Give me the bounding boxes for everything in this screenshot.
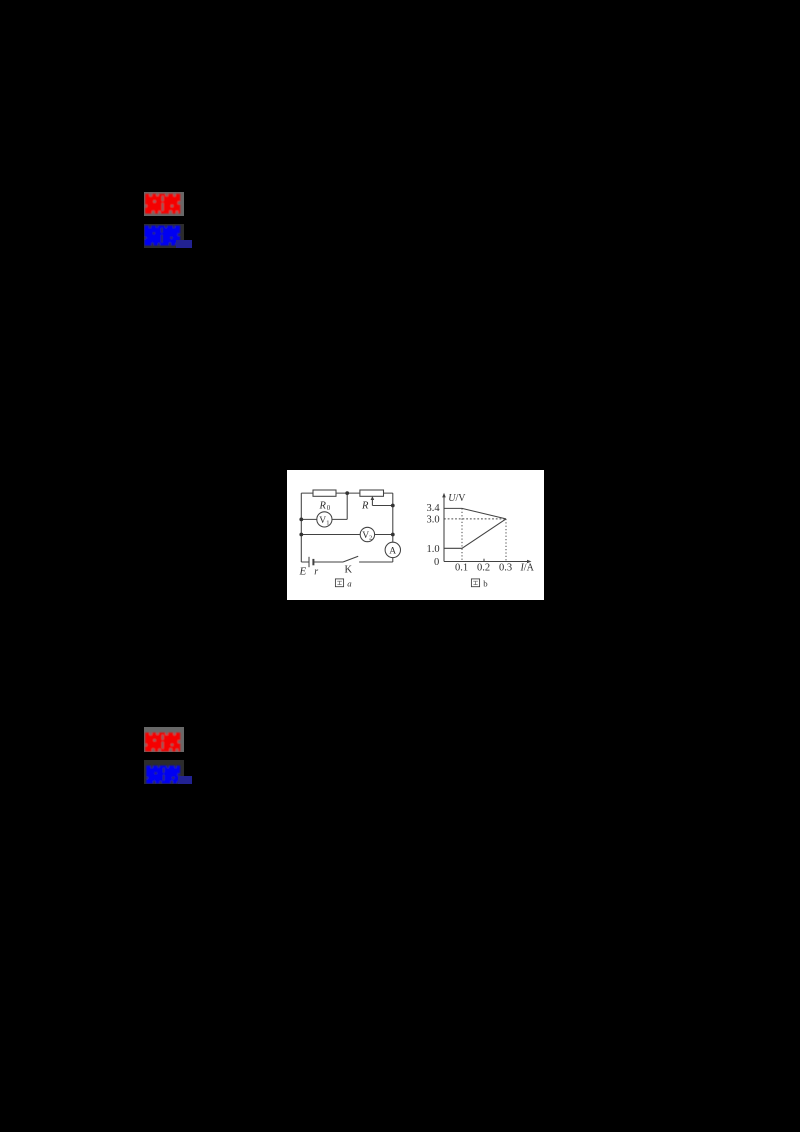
svg-text:0.1: 0.1 (455, 563, 468, 574)
svg-text:0.2: 0.2 (477, 563, 490, 574)
svg-text:b: b (483, 578, 488, 588)
svg-text:/V: /V (456, 493, 467, 504)
svg-text:0.3: 0.3 (499, 563, 512, 574)
svg-text:3.0: 3.0 (427, 515, 440, 526)
svg-text:A: A (389, 546, 396, 556)
svg-text:2: 2 (369, 535, 372, 542)
svg-text:E: E (299, 566, 307, 578)
svg-text:V: V (319, 516, 326, 526)
svg-text:R: R (361, 501, 369, 512)
svg-text:/A: /A (524, 562, 535, 573)
svg-text:1.0: 1.0 (427, 544, 440, 555)
svg-text:a: a (347, 578, 352, 588)
svg-text:K: K (345, 565, 353, 576)
svg-text:r: r (314, 566, 318, 577)
svg-text:R: R (319, 501, 327, 512)
svg-text:3.4: 3.4 (427, 503, 441, 514)
svg-text:0: 0 (434, 557, 439, 568)
svg-text:0: 0 (327, 505, 331, 512)
svg-text:1: 1 (326, 520, 329, 527)
